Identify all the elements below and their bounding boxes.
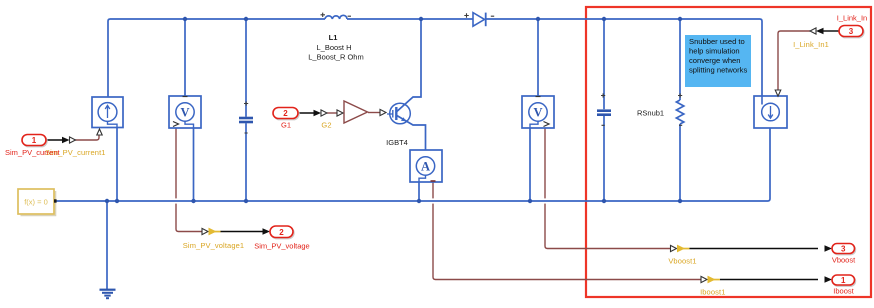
svg-text:1: 1 [32,136,37,145]
svg-text:V: V [180,106,189,120]
svg-text:Snubber used to: Snubber used to [689,37,745,46]
svg-text:G1: G1 [281,121,291,130]
svg-text:3: 3 [849,27,854,36]
svg-text:IGBT4: IGBT4 [386,138,408,147]
svg-text:f(x) = 0: f(x) = 0 [24,198,48,207]
svg-text:Iboost: Iboost [833,287,854,296]
svg-text:I_Link_In1: I_Link_In1 [793,40,829,49]
svg-text:3: 3 [841,245,846,254]
svg-text:2: 2 [279,228,284,237]
svg-text:Sim_PV_voltage: Sim_PV_voltage [254,242,309,251]
svg-text:L_Boost H: L_Boost H [316,43,351,52]
svg-text:help simulation: help simulation [689,47,740,56]
svg-text:splitting networks: splitting networks [689,66,747,75]
svg-text:1: 1 [841,276,846,285]
svg-text:Iboost1: Iboost1 [700,288,725,297]
svg-text:Vboost1: Vboost1 [668,257,696,266]
svg-text:Vboost: Vboost [832,256,856,265]
svg-text:A: A [421,160,430,174]
svg-text:I_Link_In: I_Link_In [837,14,867,23]
svg-text:2: 2 [283,109,288,118]
svg-text:RSnub1: RSnub1 [637,109,664,118]
svg-text:V: V [533,106,542,120]
svg-text:Sim_PV_voltage1: Sim_PV_voltage1 [183,241,244,250]
svg-text:L_Boost_R Ohm: L_Boost_R Ohm [308,53,363,62]
svg-text:G2: G2 [321,121,331,130]
svg-text:Sim_PV_current: Sim_PV_current [5,148,61,157]
svg-text:L1: L1 [329,33,338,42]
svg-text:converge when: converge when [689,56,741,65]
